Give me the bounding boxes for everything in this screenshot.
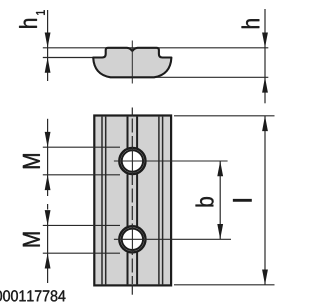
profile edge line left inner (105, 117, 107, 285)
arrowhead h1 upper (45, 33, 51, 48)
extension line: section bottom surface (148, 76, 268, 78)
notch edge line left, upper segment (127, 117, 129, 148)
hole 2 core circle (122, 229, 143, 250)
notch edge line right, upper segment (136, 117, 138, 148)
extension line M1 upper (43, 146, 120, 148)
plate centerline dashed (131, 119, 133, 285)
plan view plate body (94, 116, 171, 286)
label h (242, 19, 260, 28)
plate centerline tick below (131, 285, 133, 295)
profile edge line right inner (158, 117, 160, 285)
arrowhead M2 lower (45, 253, 51, 268)
arrowhead h1 lower (45, 58, 51, 73)
part number 00117784 (0, 290, 65, 301)
arrowhead l lower (262, 270, 268, 285)
hole 2 crosshair vertical (131, 225, 133, 254)
dimension line M1 (47, 119, 49, 196)
extension line: section shoulder surface (43, 57, 94, 59)
label M1 (23, 154, 40, 168)
arrowhead M1 lower (45, 175, 51, 190)
section vertical centerline (131, 41, 133, 84)
dimension line M2 (47, 213, 49, 283)
arrowhead b lower (217, 224, 223, 239)
dimension line h1 (47, 10, 49, 81)
notch edge line left, lower segment (127, 253, 129, 285)
hole 1 crosshair horizontal and b extension line upper (114, 160, 228, 162)
extension line l lower (174, 284, 275, 286)
notch edge line right, middle segment (136, 174, 138, 226)
notch edge line left, middle segment (127, 174, 129, 226)
extension line M2 lower (43, 252, 120, 254)
hole 1 thread circle (119, 148, 145, 174)
dash between M dimensions (47, 204, 49, 210)
profile edge line right outer (162, 117, 164, 285)
arrowhead M2 upper (45, 210, 51, 225)
label M2 (23, 232, 40, 246)
label h1 (19, 10, 45, 27)
label l (233, 199, 251, 201)
hole 1 core circle (122, 150, 143, 171)
arrowhead h lower (262, 77, 268, 92)
extension line M1 lower (43, 174, 120, 176)
hole 2 crosshair horizontal and b extension line lower (114, 238, 231, 240)
dimension line b (219, 161, 221, 239)
arrowhead l upper (262, 116, 268, 131)
label b (196, 197, 214, 206)
extension line: section top surface (43, 47, 268, 49)
plate centerline tick above (131, 108, 133, 117)
arrowhead h upper (262, 33, 268, 48)
arrowhead b upper (217, 161, 223, 176)
hole 1 crosshair vertical (131, 147, 133, 176)
dimension line h (264, 9, 266, 103)
profile edge line left outer (101, 117, 103, 285)
notch edge line right, lower segment (136, 253, 138, 285)
extension line l upper (174, 115, 275, 117)
extension line M2 upper (43, 224, 120, 226)
arrowhead M1 upper (45, 132, 51, 147)
hole 2 thread circle (119, 226, 145, 252)
dimension line l (264, 116, 266, 285)
T-slot nut profile cross-section outline (93, 48, 171, 78)
